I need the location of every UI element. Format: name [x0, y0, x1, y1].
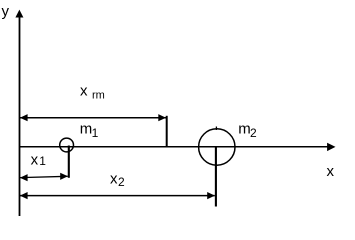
y-axis [19, 12, 21, 216]
svg-text:2: 2 [118, 175, 125, 189]
svg-text:rm: rm [92, 89, 105, 101]
svg-text:2: 2 [250, 126, 257, 140]
x-axis [19, 146, 333, 148]
svg-text:1: 1 [39, 154, 46, 168]
svg-text:x: x [110, 171, 118, 188]
svg-text:x: x [80, 83, 88, 100]
dimension x1 line [20, 176, 68, 177]
m1 position leader [68, 146, 70, 178]
svg-text:x: x [31, 152, 39, 169]
svg-text:x: x [327, 163, 335, 180]
svg-text:y: y [2, 3, 10, 20]
m2 top tick [215, 127, 217, 131]
mass m1 circle [60, 138, 74, 152]
svg-text:m: m [80, 121, 93, 138]
dimension x2 line [20, 195, 215, 197]
dimension x_rm line [20, 117, 166, 119]
svg-text:1: 1 [92, 126, 99, 140]
svg-text:m: m [238, 120, 251, 137]
mass m2 circle [199, 129, 235, 165]
m2 position leader [215, 146, 217, 207]
dimension x_rm leader [166, 116, 168, 147]
